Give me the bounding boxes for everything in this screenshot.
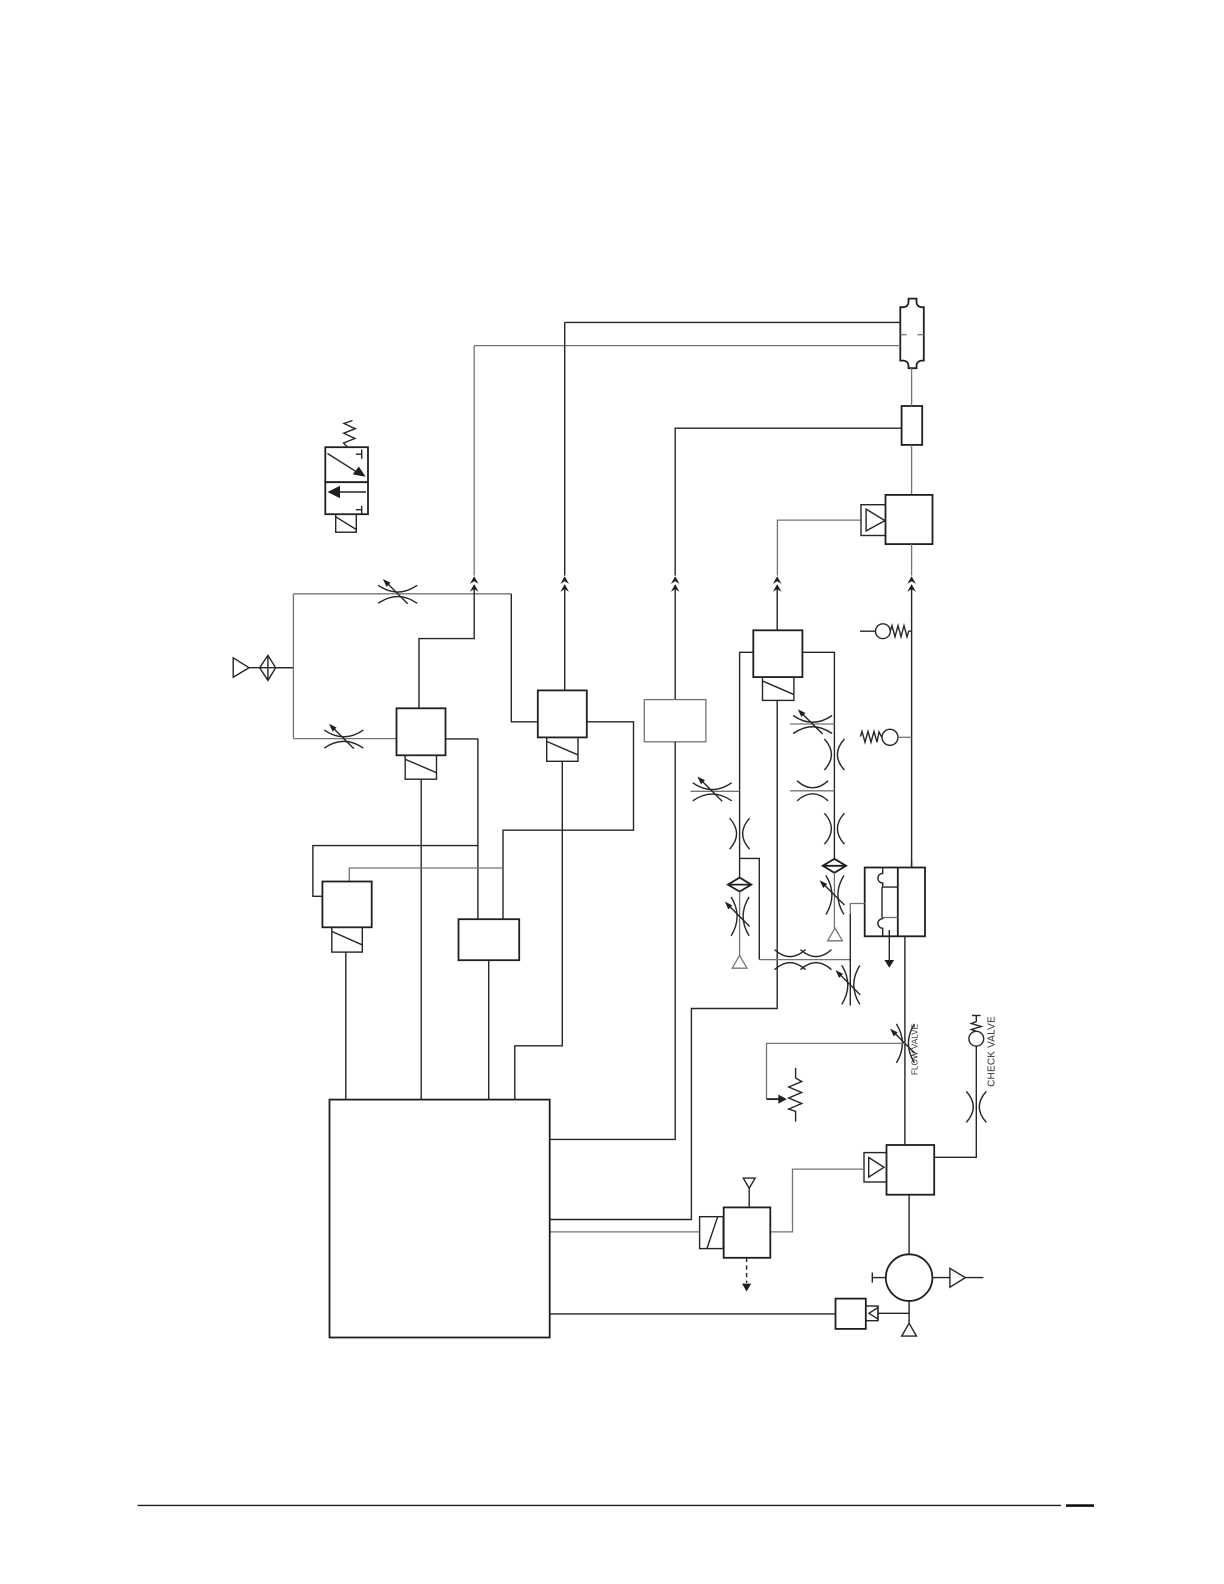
needle bleed FC5 stub <box>790 723 834 725</box>
CYL1 piston dashes <box>900 334 906 336</box>
wire below check <box>833 873 835 928</box>
B5 divider <box>897 868 899 937</box>
orifice O2 <box>824 739 844 770</box>
footer tick <box>1066 1504 1094 1507</box>
wire upper supply branch <box>293 593 511 595</box>
wire V1 right port <box>446 739 478 919</box>
inlet check triangle <box>866 1306 878 1321</box>
V10 vent triangle <box>743 1178 755 1207</box>
spring of V0 <box>344 421 356 448</box>
component U3 inline block <box>644 700 706 742</box>
wire V5 solenoid to manifold <box>345 952 347 1100</box>
relief spring RS1 <box>789 1068 802 1122</box>
wire regulator to flow valve <box>767 1043 905 1099</box>
valve V4 solenoid <box>763 677 794 700</box>
flow chevrons node B4 <box>773 576 782 591</box>
wire CYL1 port A <box>565 321 901 323</box>
relief check valve CV2 <box>860 729 911 745</box>
wire V1 solenoid to manifold <box>420 779 422 1099</box>
needle bleed FC3 stub <box>690 790 739 792</box>
valve V7 body <box>886 495 933 544</box>
exhaust muffler E1 <box>732 955 747 968</box>
wire below check <box>739 892 741 956</box>
exhaust muffler E3 <box>908 1313 910 1323</box>
wire V4 left port branch <box>740 652 754 791</box>
valve V2 body <box>538 690 587 737</box>
wire lower supply branch <box>293 738 396 740</box>
wire port A down to chevrons <box>564 322 566 575</box>
orifice O5 <box>775 950 806 970</box>
wire B5 left port <box>850 904 864 915</box>
V0 valve body box 1 <box>325 447 368 482</box>
pump left blocked port <box>872 1273 886 1283</box>
wire manifold to V10 solenoid <box>550 1231 700 1233</box>
flow chevrons node B1 <box>560 576 569 591</box>
wire outlet stub <box>965 1277 983 1279</box>
B5 rod arrow <box>888 930 890 960</box>
wire pump to outlet triangle <box>932 1277 950 1279</box>
V0 valve body box 2 <box>325 482 368 514</box>
check valve CD1 <box>728 878 751 892</box>
flow chevrons node B2 <box>470 576 479 591</box>
gray transfer line with orifices <box>759 959 850 961</box>
wire V6 bottom to manifold <box>488 960 490 1099</box>
wire R1 to valve V7 <box>911 445 913 495</box>
relief check valve CV1 <box>860 624 912 639</box>
wire supply to filter <box>249 667 293 669</box>
wire manifold to B9 <box>550 1313 835 1315</box>
flow chevrons node B5 <box>907 576 916 591</box>
valve V8 pilot box <box>864 1153 887 1182</box>
flow chevrons node B3 <box>671 576 680 591</box>
pump P1 <box>886 1254 933 1301</box>
regulator small rect R1 <box>902 406 923 445</box>
V0 solenoid <box>336 514 357 532</box>
wire V4 top to chevrons <box>776 589 778 631</box>
cylinder CYL1 (top) <box>900 299 924 369</box>
wire V8 right port to check branch <box>934 1046 976 1157</box>
wire pilot line to valve V7 <box>777 520 861 576</box>
valve V6 body <box>459 919 520 960</box>
wire B5 bottom port down <box>904 936 906 1145</box>
wire CYL1 port B <box>474 345 900 347</box>
orifice O6 <box>801 950 832 970</box>
B5 piston profile <box>878 868 898 888</box>
wire pump bottom junction <box>878 1301 909 1313</box>
valve V5 solenoid <box>332 927 363 952</box>
wire V4 right port branch <box>802 652 834 866</box>
valve V1 body <box>397 708 446 755</box>
flow control FC4 <box>725 897 750 936</box>
wire chevrons down to cylinder block <box>911 589 913 868</box>
wire V4 solenoid to manifold right port 2 <box>550 700 777 1219</box>
air supply source triangle <box>233 658 249 677</box>
orifice O1 <box>730 818 750 849</box>
3/2 solenoid valve V0 (unconnected, top-left) <box>325 421 368 533</box>
flow control FC6 <box>820 876 845 915</box>
manifold control block <box>330 1100 550 1338</box>
wire chevrons jog to valve V1 <box>419 589 474 709</box>
supply bus vertical <box>292 594 294 739</box>
wire elbow to valve V2 inlet <box>511 594 538 722</box>
wire port B down to chevrons <box>473 346 475 576</box>
valve V8 body <box>887 1145 935 1195</box>
V10 exhaust dashed arrow <box>746 1258 748 1283</box>
wire B5 top to V7 line (already drawn) <box>911 860 913 868</box>
svg-text:CHECK VALVE: CHECK VALVE <box>987 1016 998 1087</box>
wire V7 bottom to chevrons <box>911 544 913 576</box>
valve V4 body <box>753 630 802 677</box>
footer rule <box>138 1504 1061 1506</box>
valve V1 solenoid <box>405 755 436 779</box>
wire V2 solenoid to manifold <box>515 761 563 1099</box>
FLOW VALVE restrictor <box>890 1024 915 1063</box>
relief setting arrow <box>767 1098 780 1100</box>
needle bleed FC3 <box>693 777 732 802</box>
orifice O4 <box>824 813 844 844</box>
wire branch to gray manifold line <box>740 858 760 959</box>
wire tee to valve V5 top <box>349 868 503 882</box>
valve V2 solenoid <box>547 737 578 761</box>
needle bleed FC5 <box>793 709 832 734</box>
wire chevrons to valve V2 <box>564 589 566 691</box>
wire chevrons to component U3 <box>674 589 676 700</box>
V0 box2 blocked port <box>361 506 363 514</box>
CHECK VALVE assembly <box>969 1016 984 1047</box>
wire filter to supply bus <box>276 667 294 669</box>
flow control FC2 <box>324 724 363 749</box>
flow control FC1 <box>378 579 417 604</box>
orifice O3 <box>797 781 828 801</box>
flow control FC7 <box>836 965 861 1004</box>
wire tee to valve V5 inlet <box>313 846 478 897</box>
svg-text:FLOW VALVE: FLOW VALVE <box>911 1023 920 1075</box>
wire V8 bottom to pump <box>908 1195 910 1255</box>
check valve CD2 <box>823 859 846 873</box>
V0 box1 blocked port <box>361 450 363 459</box>
V0 box1 flow arrow <box>328 454 359 473</box>
wire R1 feed line <box>675 428 901 575</box>
valve V10 body <box>724 1207 771 1257</box>
pump outlet triangle <box>950 1268 966 1287</box>
valve V5 body <box>322 882 371 928</box>
wire U3 to manifold right port 1 <box>550 742 675 1140</box>
wire CYL1 rod to R1 <box>911 368 913 406</box>
orifice O3 stub <box>790 790 834 792</box>
orifice O7 <box>966 1091 986 1122</box>
cylinder block B5 <box>865 868 925 968</box>
valve V7 pilot box <box>861 505 886 536</box>
valve V10 solenoid <box>700 1217 724 1249</box>
inline filter diamond <box>260 655 276 680</box>
exhaust muffler E2 <box>828 928 843 941</box>
wire continues <box>739 791 741 884</box>
wire V8 pilot line <box>770 1169 864 1232</box>
wire down through FC7 <box>849 914 851 1006</box>
muffler box B9 <box>836 1299 866 1329</box>
V0 box2 left arrow <box>331 491 366 493</box>
wire V2 right port <box>503 722 634 919</box>
